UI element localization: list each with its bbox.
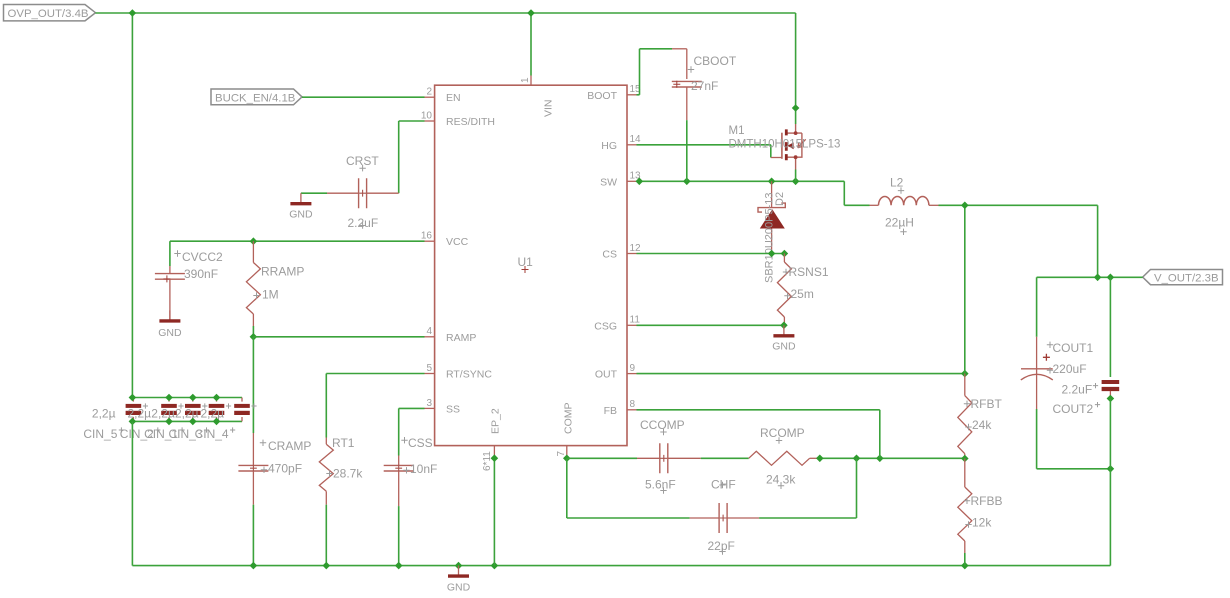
wire RFBB to ground rail: [964, 553, 966, 566]
svg-text:CRAMP: CRAMP: [268, 439, 311, 453]
junction COMP: [563, 455, 571, 463]
svg-text:RSNS1: RSNS1: [789, 265, 829, 279]
wire RT1 to ground rail: [325, 505, 327, 566]
svg-text:GND: GND: [158, 327, 182, 339]
wire SW jog down: [843, 181, 845, 205]
junction VCC / RRAMP: [250, 237, 258, 245]
resistor RRAMP: [252, 241, 254, 262]
svg-text:OUT: OUT: [595, 369, 618, 381]
junction rail RFBB: [961, 562, 969, 570]
wire CSS to ground rail: [398, 506, 400, 565]
pin 12 CS stub: [627, 253, 637, 255]
wire VIN pin1 drop: [530, 13, 532, 76]
junction rail RT1: [323, 562, 331, 570]
ground GND at CVCC2: [169, 310, 171, 320]
svg-text:EN: EN: [446, 92, 461, 104]
junction COUT2 bottom: [1107, 395, 1115, 403]
capacitor CHF: [690, 517, 720, 519]
resistor RCOMP: [749, 451, 810, 465]
svg-text:220uF: 220uF: [1053, 362, 1087, 376]
capacitor CIN_4: [241, 398, 243, 402]
pin 1 VIN stub: [530, 76, 532, 86]
svg-text:1M: 1M: [262, 287, 279, 301]
svg-text:22pF: 22pF: [708, 539, 735, 553]
svg-text:12k: 12k: [972, 515, 992, 529]
wire VIN left drop to CIN bus: [131, 13, 133, 398]
svg-text:16: 16: [421, 231, 433, 242]
wire RAMP horizontal: [253, 336, 424, 338]
svg-text:2: 2: [426, 87, 432, 98]
pin 8 FB stub: [627, 409, 637, 411]
wire VIN drop to M1 drain: [795, 13, 797, 124]
svg-text:4: 4: [426, 326, 432, 337]
svg-text:COMP: COMP: [563, 403, 575, 435]
capacitor CIN_3: [216, 398, 218, 402]
svg-text:M1: M1: [729, 125, 745, 137]
wire CBOOT bottom to SW: [686, 120, 688, 181]
svg-text:CSG: CSG: [594, 320, 617, 332]
wire RCOMP to FB divider node: [820, 457, 965, 459]
wire EP_2 to ground rail: [493, 458, 495, 565]
svg-text:2.2uF: 2.2uF: [1062, 382, 1093, 396]
junction EP_2: [491, 454, 499, 462]
net flag OVP_OUT/3.4B: [4, 5, 96, 21]
wire CSG horizontal: [637, 324, 784, 326]
junction divider node: [961, 455, 969, 463]
svg-text:9: 9: [630, 363, 636, 374]
wire L2 to VOUT node: [939, 204, 1098, 206]
junction rail CSS: [395, 562, 403, 570]
junction SW near pin: [636, 178, 644, 186]
svg-text:22µH: 22µH: [885, 215, 914, 229]
junction CS / RSNS1: [781, 250, 789, 258]
svg-text:VIN: VIN: [543, 99, 555, 117]
pin 13 SW stub: [627, 180, 637, 182]
pin 6*11 EP_2 stub: [493, 446, 495, 459]
wire VOUT down to COUT2: [1109, 277, 1111, 377]
wire M1 source to SW: [795, 170, 797, 182]
svg-text:RFBB: RFBB: [971, 494, 1003, 508]
svg-text:RCOMP: RCOMP: [760, 426, 805, 440]
svg-text:2,2µ: 2,2µ: [151, 407, 175, 421]
wire CIN bottom bus to ground rail: [131, 421, 133, 565]
wire CRST left to GND corner: [301, 192, 327, 194]
svg-text:RFBT: RFBT: [971, 397, 1003, 411]
junction rail CRAMP: [250, 562, 258, 570]
svg-text:2,2µ: 2,2µ: [92, 407, 116, 421]
junction FB branch: [876, 455, 884, 463]
svg-text:CIN_5: CIN_5: [83, 427, 117, 441]
junction RAMP node: [250, 333, 258, 341]
ground GND at bottom rail: [458, 566, 460, 576]
svg-text:GND: GND: [447, 581, 471, 593]
junction CS / D2: [768, 250, 776, 258]
svg-text:CHF: CHF: [711, 477, 736, 491]
junction L2 / RFBT drop: [961, 202, 969, 210]
svg-text:RAMP: RAMP: [446, 332, 476, 344]
wire FB horizontal: [637, 409, 880, 411]
junction SW / M1 source: [792, 178, 800, 186]
svg-text:SS: SS: [446, 403, 460, 415]
svg-text:RT1: RT1: [332, 436, 355, 450]
wire ground rail: [132, 565, 1110, 567]
ground GND at CRST: [300, 193, 302, 203]
wire VIN top rail: [96, 12, 796, 14]
junction VIN / pin1 drop: [527, 9, 535, 17]
svg-text:FB: FB: [604, 405, 617, 417]
wire CCOMP to RCOMP: [701, 457, 749, 459]
svg-text:CVCC2: CVCC2: [182, 250, 223, 264]
junction VOUT / COUT2: [1107, 274, 1115, 282]
wire VCC horizontal: [170, 240, 425, 242]
wire OUT horizontal: [637, 373, 965, 375]
wire FB down to divider node: [879, 410, 881, 459]
svg-text:GND: GND: [289, 208, 313, 220]
wire SW to L2: [844, 204, 869, 206]
net flag BUCK_EN/4.1B: [211, 89, 302, 105]
svg-text:BUCK_EN/4.1B: BUCK_EN/4.1B: [215, 92, 295, 104]
svg-text:D2: D2: [774, 192, 786, 206]
junction SW / D2: [768, 178, 776, 186]
resistor RFBB: [964, 459, 966, 488]
svg-text:CS: CS: [602, 249, 617, 261]
junction CHF branch: [853, 455, 861, 463]
wire CIN top bus: [132, 397, 242, 399]
svg-text:RT/SYNC: RT/SYNC: [446, 369, 492, 381]
wire RAMP drop to CRAMP: [252, 337, 254, 433]
resistor RT1: [325, 438, 327, 445]
svg-text:EP_2: EP_2: [490, 408, 502, 434]
wire VCC drop to CVCC2: [169, 241, 171, 266]
svg-text:CBOOT: CBOOT: [694, 54, 737, 68]
junction CIN bottom bus dots: [129, 418, 137, 426]
pin 11 CSG stub: [627, 324, 637, 326]
wire SS drop to CSS: [398, 408, 400, 455]
capacitor CCOMP: [637, 457, 660, 459]
diode D2 SBR10U200P5: [771, 181, 773, 207]
svg-text:10: 10: [421, 110, 433, 121]
wire EN from flag to pin 2: [302, 96, 425, 98]
pin 9 OUT stub: [627, 373, 637, 375]
ground GND at RSNS1: [783, 325, 785, 335]
junction VIN / M1 drain: [792, 104, 800, 112]
svg-text:CIN_4: CIN_4: [195, 427, 229, 441]
svg-text:RES/DITH: RES/DITH: [446, 116, 495, 128]
wire RES/DITH drop to CRST: [398, 121, 400, 193]
wire SS horizontal: [399, 407, 425, 409]
svg-text:5: 5: [426, 363, 432, 374]
inductor L2: [870, 204, 879, 206]
wire RT/SYNC horizontal: [326, 373, 424, 375]
svg-text:CSS: CSS: [408, 436, 433, 450]
wire COMP to CCOMP: [567, 457, 637, 459]
svg-text:14: 14: [630, 134, 642, 145]
wire CHF right segment: [759, 517, 856, 519]
capacitor CIN_5: [132, 398, 134, 402]
svg-text:BOOT: BOOT: [587, 90, 617, 102]
capacitor CRAMP: [252, 433, 254, 466]
svg-text:7: 7: [556, 451, 567, 457]
resistor RSNS1: [783, 254, 785, 263]
wire COUT loop bottom: [1037, 468, 1111, 470]
pin 4 RAMP stub: [425, 336, 435, 338]
pin 7 COMP stub: [566, 446, 568, 459]
svg-text:5.6nF: 5.6nF: [645, 477, 676, 491]
wire COUT1 to loop bottom: [1036, 409, 1038, 469]
pin 2 EN stub: [425, 96, 435, 98]
svg-text:24k: 24k: [972, 418, 992, 432]
svg-text:1: 1: [520, 77, 531, 83]
wire VOUT down to COUT1: [1036, 277, 1038, 337]
svg-text:27nF: 27nF: [691, 79, 718, 93]
svg-text:390nF: 390nF: [184, 267, 218, 281]
wire COUT2 to loop bottom: [1109, 399, 1111, 469]
svg-text:COUT1: COUT1: [1053, 341, 1094, 355]
junction VOUT / drop: [1094, 274, 1102, 282]
wire loop bottom to ground rail: [1109, 469, 1111, 566]
capacitor CIN_1: [192, 398, 194, 402]
svg-text:CCOMP: CCOMP: [640, 418, 685, 432]
wire RT/SYNC drop to RT1: [325, 374, 327, 438]
net flag V_OUT/2.3B: [1143, 270, 1223, 285]
capacitor COUT1 220uF: [1036, 337, 1038, 374]
pin 5 RT/SYNC stub: [425, 373, 435, 375]
wire VOUT drop to RFBT: [964, 205, 966, 373]
wire VOUT drop right: [1097, 205, 1099, 277]
pin 3 SS stub: [425, 407, 435, 409]
transistor M1 DMTH10H015LPS-13: [787, 124, 806, 170]
capacitor CBOOT: [686, 49, 688, 79]
op-amp U1 LM25145 body: [435, 85, 627, 445]
svg-text:OVP_OUT/3.4B: OVP_OUT/3.4B: [8, 8, 89, 20]
svg-text:2,2µ: 2,2µ: [201, 407, 225, 421]
wire CIN bottom bus: [132, 420, 242, 422]
junction OUT / RFBT: [961, 370, 969, 378]
junction SW / CBOOT: [683, 178, 691, 186]
svg-text:11: 11: [630, 315, 641, 326]
junction CIN top bus dots: [129, 394, 137, 402]
pin 14 HG stub: [627, 144, 637, 146]
svg-text:3: 3: [426, 398, 432, 409]
pin 10 RES/DITH stub: [425, 120, 435, 122]
svg-text:10nF: 10nF: [410, 462, 437, 476]
svg-text:V_OUT/2.3B: V_OUT/2.3B: [1154, 272, 1219, 284]
wire COMP down branch: [566, 458, 568, 518]
svg-text:RRAMP: RRAMP: [261, 264, 304, 278]
wire CHF left segment: [567, 517, 690, 519]
wire SW horizontal: [637, 180, 845, 182]
capacitor CSS: [398, 456, 400, 466]
junction rail EP_2: [491, 562, 499, 570]
svg-text:GND: GND: [772, 341, 796, 353]
svg-text:COUT2: COUT2: [1053, 402, 1094, 416]
junction RCOMP right: [816, 455, 824, 463]
wire BOOT jog: [637, 94, 640, 96]
svg-text:28.7k: 28.7k: [333, 467, 363, 481]
svg-text:HG: HG: [601, 140, 617, 152]
svg-text:6*11: 6*11: [482, 451, 493, 471]
junction loop bottom / COUT2: [1107, 465, 1115, 473]
svg-text:VCC: VCC: [446, 236, 469, 248]
junction rail GND symbol: [455, 562, 463, 570]
pin 15 BOOT stub: [627, 94, 637, 96]
svg-text:25m: 25m: [791, 287, 814, 301]
wire CHF up to node: [856, 458, 858, 518]
capacitor COUT2 2.2uF: [1102, 380, 1120, 384]
junction CSG / RSNS1: [780, 322, 788, 330]
svg-text:2,2µ: 2,2µ: [175, 407, 199, 421]
svg-text:8: 8: [630, 399, 636, 410]
svg-text:SW: SW: [600, 176, 617, 188]
wire CS horizontal: [637, 253, 785, 255]
pin 16 VCC stub: [425, 240, 435, 242]
svg-text:470pF: 470pF: [268, 461, 302, 475]
svg-text:DMTH10H015LPS-13: DMTH10H015LPS-13: [729, 139, 841, 151]
svg-text:2,2µ: 2,2µ: [128, 407, 152, 421]
svg-text:12: 12: [630, 243, 642, 254]
svg-text:L2: L2: [890, 175, 904, 189]
capacitor CRST: [327, 192, 359, 194]
wire HG jog to gate: [770, 145, 772, 158]
resistor RFBT: [964, 374, 966, 396]
junction VIN / left drop: [129, 9, 137, 17]
wire CRAMP to ground rail: [252, 505, 254, 566]
wire RES/DITH horizontal: [399, 120, 425, 122]
wire RRAMP to RAMP: [252, 326, 254, 337]
wire HG horizontal: [637, 144, 771, 146]
capacitor CIN_2: [168, 398, 170, 402]
wire VOUT horizontal to flag: [1037, 276, 1143, 278]
capacitor CVCC2: [169, 266, 171, 274]
